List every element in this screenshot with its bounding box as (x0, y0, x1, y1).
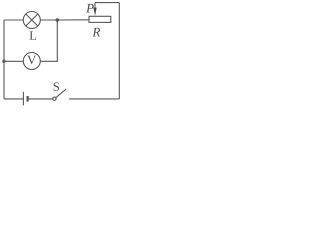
wire bottom right to switch (69, 98, 119, 100)
wire switch to battery (28, 98, 53, 100)
switch S (53, 89, 66, 100)
label L (lamp) (30, 31, 37, 39)
wire lamp to junction A (40, 19, 57, 21)
rheostat R body (89, 16, 111, 22)
wire node B to voltmeter (4, 60, 23, 62)
lamp L (23, 12, 40, 29)
label R (rheostat) (92, 28, 100, 37)
label P (wiper) (86, 4, 94, 13)
battery cell (23, 92, 27, 106)
wire right vertical (118, 3, 120, 99)
wire left vertical (3, 20, 5, 99)
wire wiper to top-right corner (95, 2, 119, 4)
node B junction dot on left wire (2, 60, 5, 63)
wire top-left from corner to lamp (4, 19, 23, 21)
label V (voltmeter) (27, 56, 36, 64)
voltmeter V (23, 53, 40, 70)
wire battery to bottom-left corner (4, 98, 23, 100)
wire junction to rheostat (57, 19, 89, 21)
rheostat wiper arrow P (93, 3, 96, 16)
wire voltmeter to vertical branch (40, 20, 57, 61)
node A junction dot (56, 18, 60, 22)
label S (switch) (54, 82, 59, 90)
